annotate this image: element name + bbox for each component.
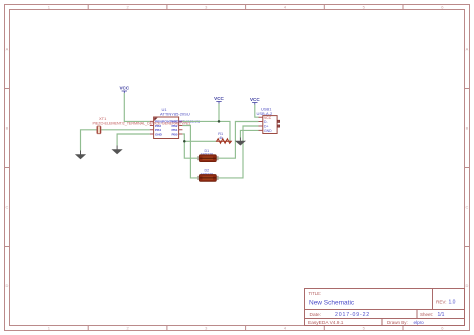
svg-text:C: C <box>466 205 469 210</box>
svg-text:D: D <box>466 283 469 288</box>
svg-text:D+: D+ <box>264 125 268 129</box>
svg-text:C: C <box>6 205 9 210</box>
wire VCC to USB VCC pin <box>255 105 259 118</box>
wire D2 right to USB D+ <box>218 126 258 178</box>
power flag VCC (USB) <box>250 97 260 105</box>
diode D1 1N5226 <box>197 149 219 162</box>
svg-text:A: A <box>466 47 469 52</box>
svg-text:GND: GND <box>264 129 272 133</box>
junction (PB0 / R1 / D1 node) <box>183 140 186 143</box>
svg-text:REV:: REV: <box>436 300 447 305</box>
svg-text:Sheet:: Sheet: <box>420 312 433 317</box>
svg-text:PIEZO-ELEMENT/2_TERMINAL_DEVIC: PIEZO-ELEMENT/2_TERMINAL_DEVICE-GENERALT… <box>93 122 191 126</box>
svg-text:XT1: XT1 <box>99 116 107 121</box>
wire U1 PB0 down to R1/D1 node <box>182 134 197 158</box>
svg-text:B: B <box>466 126 469 131</box>
wire piezo to U1 PB4 <box>101 129 150 131</box>
power flag VCC (middle) <box>214 96 224 104</box>
wire U1 GND pin to ground <box>117 134 150 146</box>
pin names <box>155 120 200 137</box>
pin stubs left: PB5,PB3,PB4,GND <box>150 121 154 134</box>
svg-text:elpro: elpro <box>414 320 425 325</box>
svg-text:Drawn By:: Drawn By: <box>387 320 408 325</box>
title block <box>305 289 465 326</box>
wire U1 VCC pin to R1 right lead <box>182 121 230 141</box>
svg-text:D-: D- <box>264 120 268 124</box>
svg-text:2017-09-22: 2017-09-22 <box>335 312 370 318</box>
svg-text:A: A <box>6 47 9 52</box>
wire VCC (middle) down to VCC net <box>218 104 220 122</box>
shield pins <box>277 120 279 122</box>
svg-text:D: D <box>6 283 9 288</box>
IC U1 ATtiny85-20SU <box>150 107 200 139</box>
wire D1 right to USB D- <box>218 122 258 159</box>
svg-text:Date:: Date: <box>310 312 321 318</box>
wire VCC to U1 pin PB5/reset row <box>124 93 150 121</box>
wire U1 PB2 down to D2 left <box>182 126 197 178</box>
svg-text:TITLE:: TITLE: <box>309 291 322 296</box>
resistor R1 <box>217 132 232 143</box>
wire R1 left lead <box>184 140 216 142</box>
svg-text:PB0: PB0 <box>171 132 177 136</box>
ground (USB) <box>235 138 246 146</box>
pin stubs right: VCC,PB2,PB1,PB0 <box>179 121 183 134</box>
piezo element XT1 <box>93 116 191 134</box>
svg-text:VCC: VCC <box>214 96 224 101</box>
ground (U1 GND) <box>112 146 123 155</box>
USB connector USB1 <box>257 107 280 134</box>
svg-text:1/1: 1/1 <box>438 312 445 318</box>
svg-text:1.0: 1.0 <box>449 300 456 306</box>
svg-text:VCC: VCC <box>250 97 260 102</box>
svg-text:GND: GND <box>155 132 163 136</box>
wire piezo left lead to ground <box>81 130 97 151</box>
svg-text:New Schematic: New Schematic <box>309 300 355 307</box>
power flag VCC (left, above U1) <box>119 86 129 94</box>
svg-text:ATTINY85-20SU: ATTINY85-20SU <box>160 111 190 116</box>
junction (VCC / U1 VCC wire) <box>218 120 221 123</box>
pin stubs left: VCC,D-,D+,GND <box>259 117 263 130</box>
svg-text:EasyEDA V4.9.1: EasyEDA V4.9.1 <box>308 320 344 326</box>
wire USB GND pin to ground <box>240 130 258 137</box>
ground (piezo) <box>75 151 86 160</box>
svg-text:B: B <box>6 126 9 131</box>
svg-text:VCC: VCC <box>119 86 129 91</box>
diode D2 1N5226 <box>197 169 219 182</box>
